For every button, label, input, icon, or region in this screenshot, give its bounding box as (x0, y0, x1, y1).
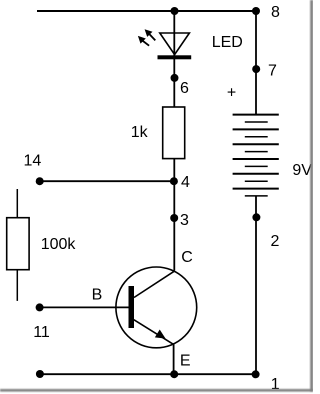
LED D1 triangle (anode) (160, 33, 190, 55)
LED D1 cathode bar (158, 55, 192, 59)
svg-text:3: 3 (180, 212, 189, 229)
node 2 dot (252, 213, 260, 221)
node 3 dot (170, 214, 178, 222)
node 11 dot (36, 303, 44, 311)
wire right vertical rail from battery bottom to node 1 (255, 196, 257, 374)
node emitter junction dot (170, 370, 178, 378)
svg-text:1k: 1k (131, 124, 149, 141)
svg-text:9V: 9V (292, 162, 312, 179)
wire base horizontal from node 11 to base bar (40, 306, 129, 308)
wire top rail from left end to node 8 (37, 10, 256, 12)
transistor Q1 body circle (116, 267, 197, 348)
frame border right edge (310, 0, 313, 392)
battery B1 9V cells (233, 115, 279, 196)
svg-text:4: 4 (181, 174, 190, 191)
svg-text:LED: LED (212, 34, 243, 51)
svg-text:2: 2 (271, 233, 280, 250)
LED light arrow lower (138, 36, 149, 46)
node junction dot LED top (171, 7, 179, 15)
node 14 dot (36, 177, 44, 185)
node 1 dot (252, 370, 260, 378)
svg-text:E: E (180, 353, 191, 370)
wire emitter vertical to bottom rail (173, 344, 175, 374)
LED light arrow upper (145, 29, 156, 40)
svg-text:14: 14 (24, 153, 42, 170)
wire left vertical rail x=174 from top rail to collector bend (173, 11, 175, 271)
frame border bottom edge (0, 389, 313, 392)
node bottom-left dot (36, 370, 44, 378)
svg-text:C: C (181, 249, 193, 266)
svg-text:8: 8 (271, 4, 280, 21)
wire stub below 100k resistor (16, 270, 18, 301)
svg-text:11: 11 (33, 324, 50, 341)
svg-text:7: 7 (268, 62, 277, 79)
transistor Q1 base bar (129, 286, 135, 328)
wire bottom rail from bottom-left node to node 1 (40, 373, 256, 375)
svg-text:6: 6 (180, 80, 189, 97)
wire stub above 100k resistor (16, 189, 18, 218)
wire node 14 horizontal to node 4 (40, 180, 175, 182)
wire right vertical rail x=256 from node 8 down to battery top (255, 11, 257, 115)
resistor R1 1k body (163, 107, 185, 159)
svg-text:B: B (92, 286, 103, 303)
transistor Q1 emitter arrow head (155, 330, 166, 339)
node 6 dot (171, 74, 179, 82)
node 7 dot (252, 65, 260, 73)
resistor R2 100k body (7, 218, 29, 270)
node 8 dot (252, 7, 260, 15)
transistor Q1 emitter line (134, 320, 174, 345)
svg-text:+: + (227, 85, 236, 102)
node 4 dot (170, 177, 178, 185)
transistor Q1 collector line (134, 271, 174, 297)
svg-text:100k: 100k (41, 236, 77, 253)
